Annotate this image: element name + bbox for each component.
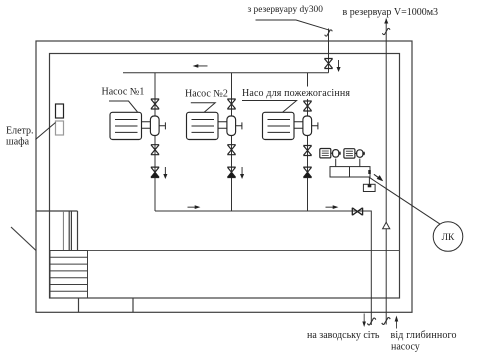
svg-text:ЛК: ЛК [442, 233, 455, 243]
svg-text:насосу: насосу [391, 341, 420, 352]
svg-text:Насо для пожежогасіння: Насо для пожежогасіння [242, 88, 350, 99]
svg-text:з резервуару dу300: з резервуару dу300 [248, 5, 324, 15]
svg-text:Насос №1: Насос №1 [102, 87, 145, 98]
svg-text:Елетр.: Елетр. [6, 126, 34, 137]
svg-text:від глибинного: від глибинного [391, 330, 457, 341]
svg-text:шафа: шафа [6, 137, 30, 148]
svg-text:Насос №2: Насос №2 [185, 89, 228, 100]
svg-text:в резервуар V=1000м3: в резервуар V=1000м3 [343, 7, 439, 18]
svg-text:на заводську сіть: на заводську сіть [307, 330, 380, 341]
